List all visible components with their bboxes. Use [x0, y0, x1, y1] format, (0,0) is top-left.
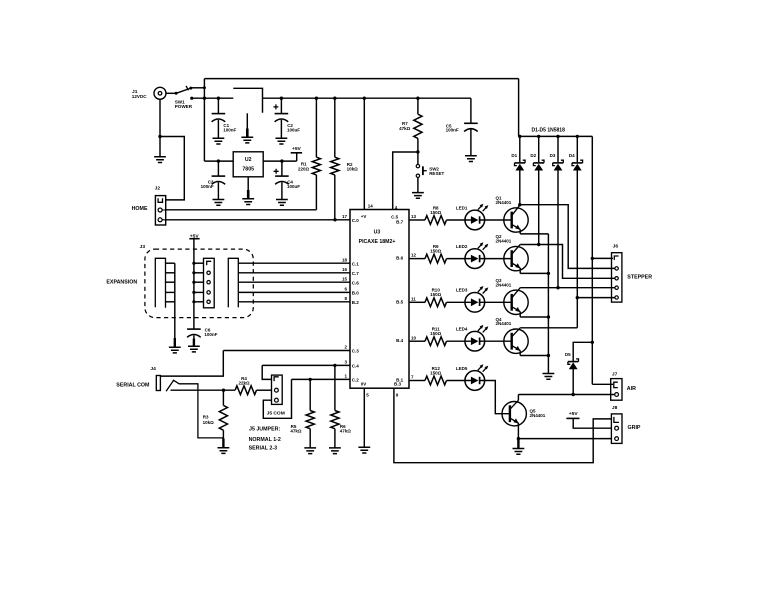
LED LED1: [456, 204, 488, 230]
wire U2 output +5V: [263, 160, 297, 162]
wire hop bracket: [233, 88, 262, 113]
diode D2 1N5818: [530, 136, 544, 244]
svg-text:10: 10: [411, 335, 417, 340]
wire C.2 to J5 pin3: [263, 379, 291, 418]
svg-text:R1: R1: [301, 161, 307, 166]
svg-text:100nF: 100nF: [201, 184, 214, 189]
J3 expansion dashed box: [145, 249, 253, 318]
svg-text:+5V: +5V: [569, 411, 579, 417]
resistor R7 47k: [399, 97, 422, 154]
svg-text:B.6: B.6: [396, 256, 404, 261]
wire LED to Q2 base: [485, 258, 512, 260]
wire C.4 to J5 pin1: [262, 365, 271, 379]
svg-text:17: 17: [342, 214, 348, 219]
svg-text:2N4401: 2N4401: [496, 200, 512, 205]
svg-text:220Ω: 220Ω: [298, 167, 310, 172]
transistor Q4 2N4401: [496, 317, 529, 356]
svg-text:RESET: RESET: [429, 171, 444, 176]
svg-text:14: 14: [368, 204, 374, 209]
ground pin 5: [358, 447, 370, 453]
wire J1 to SW1: [166, 92, 178, 95]
wire J4 sleeve to C.3: [160, 351, 223, 377]
wire Q4 emitter: [520, 355, 548, 357]
svg-text:+V: +V: [361, 214, 367, 219]
wire Q3 emitter: [520, 316, 548, 318]
capacitor C1 100nF: [212, 97, 237, 145]
svg-text:LED2: LED2: [456, 244, 468, 249]
ground Q5: [513, 439, 525, 455]
wire LED to Q1 base: [485, 219, 512, 221]
svg-text:10kΩ: 10kΩ: [203, 420, 215, 425]
svg-text:C.6: C.6: [352, 280, 360, 285]
wire +12V column: [591, 136, 594, 384]
wire emitter ground bus: [547, 234, 550, 374]
resistor R2 10k: [331, 97, 358, 222]
svg-text:LED5: LED5: [456, 366, 468, 371]
svg-text:2N4401: 2N4401: [496, 239, 512, 244]
svg-text:GRIP: GRIP: [628, 425, 641, 431]
wire gnd to J2 pin1: [160, 137, 184, 200]
connector J2 HOME: [132, 186, 166, 225]
svg-text:47kΩ: 47kΩ: [399, 126, 411, 131]
svg-text:2N4401: 2N4401: [496, 321, 512, 326]
resistor R5 47k: [290, 378, 316, 454]
svg-text:150Ω: 150Ω: [430, 370, 442, 375]
svg-text:B.0: B.0: [352, 291, 360, 296]
svg-text:22kΩ: 22kΩ: [238, 381, 250, 386]
transistor Q3 2N4401: [496, 278, 529, 317]
svg-text:STEPPER: STEPPER: [627, 274, 652, 280]
wire Q1 to J6 pin2: [520, 205, 615, 269]
ground U2: [242, 177, 254, 205]
resistor R4 22k: [235, 376, 271, 394]
svg-text:PICAXE 18M2+: PICAXE 18M2+: [359, 239, 396, 245]
wire reset to pin4: [393, 152, 418, 210]
wire J2 pin2 to R1: [166, 209, 317, 211]
svg-text:J3: J3: [140, 244, 146, 250]
wire B.3 to J8 pin1: [394, 388, 612, 463]
resistor R8 150: [409, 205, 465, 224]
svg-text:D1: D1: [511, 153, 517, 158]
ground J3 left: [169, 263, 181, 353]
svg-text:150Ω: 150Ω: [430, 210, 442, 215]
svg-text:100nF: 100nF: [446, 128, 459, 133]
svg-text:18: 18: [342, 257, 348, 262]
wire diode bus: [518, 135, 592, 138]
svg-text:12VDC: 12VDC: [132, 94, 147, 99]
wire Q5 collector AIR: [518, 393, 614, 396]
svg-text:150Ω: 150Ω: [430, 331, 442, 336]
J3 bracket right: [228, 258, 238, 307]
svg-text:J2: J2: [155, 186, 161, 192]
transistor Q5 2N4401: [502, 395, 546, 439]
wire +5V to pin 14: [363, 97, 366, 210]
resistor R3 10k: [203, 390, 230, 453]
resistor R12 150: [409, 366, 465, 385]
resistor R10 150: [409, 288, 465, 307]
ground J1: [154, 157, 166, 163]
connector J4 SERIAL COM: [116, 366, 223, 438]
svg-text:C.7: C.7: [352, 271, 360, 276]
svg-text:C.0: C.0: [352, 218, 360, 223]
svg-text:11: 11: [411, 296, 416, 301]
switch SW2 RESET: [416, 152, 444, 178]
svg-text:NORMAL 1-2: NORMAL 1-2: [249, 437, 281, 443]
svg-text:J4: J4: [150, 366, 156, 372]
wire LED to Q3 base: [485, 301, 512, 303]
connector J6 STEPPER: [592, 244, 652, 302]
pin 5 0V: [361, 382, 369, 448]
wire Q2 to J6 pin3: [520, 245, 615, 279]
connector J5 COM: [267, 375, 285, 417]
svg-text:U3: U3: [374, 230, 381, 236]
svg-text:C.1: C.1: [352, 261, 360, 266]
junction Q5 emitter: [517, 437, 520, 440]
wire Q4 to J6 pin5: [520, 298, 615, 328]
LED LED5: [456, 364, 488, 390]
wire rail segment to C1: [192, 97, 234, 99]
svg-text:J7: J7: [612, 371, 618, 377]
wire J1 ground: [158, 99, 161, 157]
wire C.4 row to chip: [262, 364, 350, 366]
svg-text:LED4: LED4: [456, 327, 468, 332]
svg-text:16: 16: [342, 267, 348, 272]
svg-text:U2: U2: [245, 157, 252, 163]
svg-text:47kΩ: 47kΩ: [290, 428, 302, 433]
switch SW1 POWER: [175, 86, 194, 109]
regulator U2 7805: [233, 152, 263, 177]
wire C.2 row to chip: [292, 378, 351, 380]
junction Q2 collector: [537, 243, 540, 246]
junction Q3 collector: [556, 286, 559, 289]
svg-text:15: 15: [342, 276, 348, 281]
wire J2 pin3 to C.0: [162, 210, 350, 220]
svg-text:D1-D5 1N5818: D1-D5 1N5818: [532, 128, 566, 134]
resistor R9 150: [409, 244, 465, 263]
svg-text:SERIAL COM: SERIAL COM: [116, 383, 150, 389]
svg-text:LED1: LED1: [456, 205, 468, 210]
resistor R6 47k: [329, 364, 351, 454]
power +5V symbol: [291, 146, 302, 161]
wire LED5 to Q5 base: [485, 381, 510, 414]
LED LED2: [456, 242, 488, 268]
svg-text:10kΩ: 10kΩ: [347, 167, 359, 172]
svg-text:B.5: B.5: [396, 299, 404, 304]
diode D5 1N5818: [565, 342, 592, 394]
svg-text:SERIAL 2-3: SERIAL 2-3: [249, 446, 278, 452]
power +5V expansion: [189, 233, 199, 329]
svg-text:7805: 7805: [242, 166, 254, 172]
IC U3 PICAXE 18M2+: [350, 210, 409, 389]
svg-text:J8: J8: [612, 405, 618, 411]
wire Q2 emitter: [520, 272, 548, 274]
J3 bracket left: [155, 258, 165, 308]
svg-text:2N4401: 2N4401: [496, 282, 512, 287]
connector J3 header: [204, 258, 215, 308]
svg-text:POWER: POWER: [175, 104, 193, 109]
power +5V GRIP: [566, 411, 611, 428]
ground emitters: [543, 374, 555, 380]
connector J3 bus ticks: [166, 262, 204, 304]
svg-text:C.3: C.3: [352, 349, 360, 354]
diode D3 1N5818: [550, 136, 564, 287]
svg-text:47kΩ: 47kΩ: [340, 428, 352, 433]
capacitor C5 100nF: [446, 98, 478, 161]
svg-text:100uF: 100uF: [287, 128, 300, 133]
svg-text:EXPANSION: EXPANSION: [106, 279, 137, 285]
junction Q1 collector: [518, 203, 521, 206]
svg-text:C.2: C.2: [352, 378, 360, 383]
svg-text:B.7: B.7: [396, 219, 404, 224]
wire C.3 row: [223, 350, 350, 352]
svg-text:B.4: B.4: [396, 338, 404, 343]
svg-text:D3: D3: [550, 153, 556, 158]
ground SW2: [412, 178, 424, 199]
capacitor C2 100uF: [273, 97, 300, 145]
svg-text:D5: D5: [565, 352, 571, 357]
diode D4 1N5818: [569, 136, 583, 327]
svg-text:J5 COM: J5 COM: [267, 411, 285, 417]
wire C.6 row: [238, 281, 350, 283]
svg-text:100nF: 100nF: [204, 332, 217, 337]
svg-text:J5 JUMPER:: J5 JUMPER:: [249, 426, 280, 432]
svg-text:+5V: +5V: [292, 146, 302, 152]
svg-text:AIR: AIR: [627, 386, 636, 392]
svg-text:13: 13: [411, 214, 417, 219]
ground stub mid: [241, 113, 253, 143]
wire +12V feed to diode bus: [518, 79, 520, 137]
LED LED4: [456, 325, 488, 351]
transistor Q1 2N4401: [496, 196, 529, 234]
svg-text:150Ω: 150Ω: [430, 249, 442, 254]
svg-text:D4: D4: [569, 153, 575, 158]
svg-text:R3: R3: [203, 414, 209, 419]
LED LED3: [456, 286, 488, 312]
connector J1 12VDC: [132, 87, 166, 99]
wire Q3 to J6 pin4: [520, 287, 615, 289]
connector J7 AIR: [592, 371, 636, 400]
svg-text:0V: 0V: [361, 382, 367, 387]
diode D1 1N5818: [511, 136, 525, 204]
capacitor C6 100nF: [187, 328, 218, 352]
wire LED to Q4 base: [485, 340, 512, 342]
resistor R1 220: [298, 97, 321, 210]
svg-text:2N4401: 2N4401: [530, 413, 546, 418]
svg-text:150Ω: 150Ω: [430, 292, 442, 297]
svg-text:B.3: B.3: [394, 382, 402, 387]
wire SW1 output to +12V node: [191, 86, 206, 89]
wire B.0 row: [238, 291, 350, 293]
wire C.1 row: [238, 262, 350, 264]
transistor Q2 2N4401: [496, 234, 529, 273]
svg-text:HOME: HOME: [132, 206, 148, 212]
connector J8 GRIP: [611, 405, 641, 444]
capacitor C4 100uF: [274, 159, 301, 205]
svg-text:C.4: C.4: [352, 364, 360, 369]
svg-text:B.2: B.2: [352, 300, 360, 305]
svg-text:D2: D2: [530, 153, 536, 158]
wire +12V top rail: [203, 79, 519, 162]
wire Q5 emitter to J8 pin3: [518, 438, 611, 440]
svg-text:100nF: 100nF: [223, 128, 236, 133]
svg-text:12: 12: [411, 253, 417, 258]
wire Q1 emitter: [520, 233, 548, 235]
wire U2 input: [204, 160, 233, 162]
wire J4 tip: [171, 389, 236, 392]
wire B.2 row: [238, 301, 350, 303]
wire +5V rail: [263, 97, 471, 99]
capacitor C3 100nF: [201, 159, 226, 205]
svg-text:LED3: LED3: [456, 288, 468, 293]
resistor R11 150: [409, 327, 465, 346]
wire C.7 row: [238, 272, 350, 274]
svg-text:J6: J6: [613, 244, 619, 250]
junction D4 pin5: [576, 296, 579, 299]
svg-text:100uF: 100uF: [287, 184, 300, 189]
